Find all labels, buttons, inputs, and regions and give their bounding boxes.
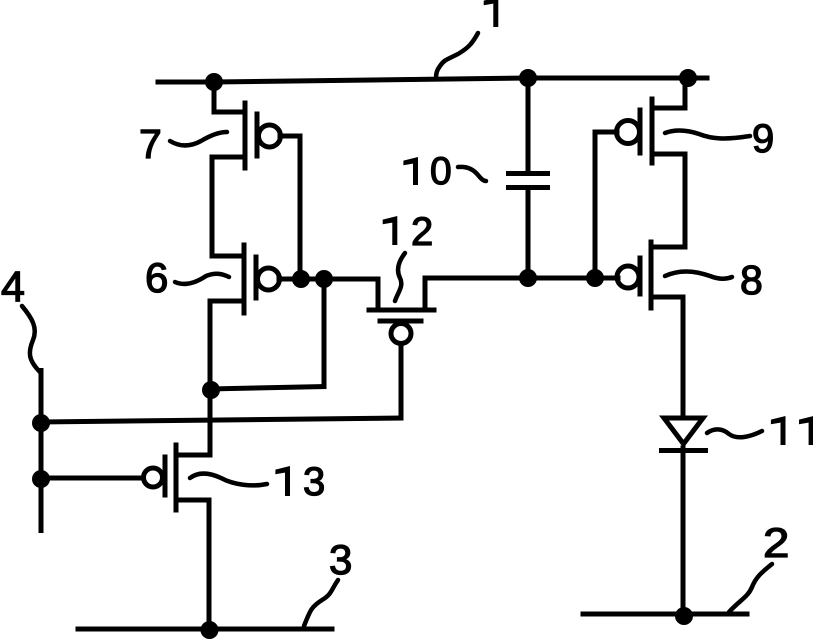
wire leader for label 13 (190, 474, 267, 486)
wire leader for label 6 (175, 274, 229, 284)
node rail1-capacitor junction (519, 69, 537, 87)
wire Q9 gate down (593, 132, 598, 278)
wire node B down (322, 279, 327, 387)
label 11 (771, 416, 786, 445)
wire rail 3 (78, 627, 332, 632)
wire rail 2 (583, 612, 747, 617)
wire feedback horizontal (210, 387, 324, 390)
label 13 (275, 466, 290, 496)
node rail1-T7 junction (205, 73, 223, 91)
label 12 (383, 216, 398, 245)
transistor Q8 (617, 242, 685, 418)
wire node 4 vertical (39, 371, 44, 531)
svg-text:3: 3 (329, 536, 352, 583)
transistor Q13 (41, 445, 210, 629)
wire leader for label 10 (458, 167, 486, 181)
wire leader for label 7 (170, 132, 227, 146)
wire Q7 gate to node (298, 136, 303, 279)
node Q9 gate junction (586, 269, 604, 287)
svg-text:2: 2 (411, 210, 433, 254)
node B feedback junction (315, 270, 333, 288)
wire leader for label 11 (707, 429, 762, 437)
node 4 lower junction (32, 470, 50, 488)
wire leader for label 9 (665, 130, 750, 138)
label 10 (403, 157, 418, 185)
svg-text:7: 7 (139, 121, 162, 167)
node rail1-T9 junction (679, 69, 697, 87)
node rail2 junction (675, 607, 693, 625)
wire leader for label 4 (22, 306, 40, 372)
svg-text:0: 0 (430, 150, 452, 193)
transistor Q7 (212, 82, 300, 256)
transistor Q9 (595, 78, 688, 247)
transistor Q12 (324, 278, 618, 344)
wire power rail 1 (158, 78, 707, 82)
node A gates junction (292, 270, 310, 288)
wire node 4 to Q12 gate (41, 418, 401, 422)
node 4 upper junction (32, 414, 50, 432)
svg-text:3: 3 (303, 460, 325, 504)
label 1 (484, 0, 499, 27)
svg-text:8: 8 (740, 257, 763, 303)
node rail3 junction (201, 621, 219, 639)
svg-text:9: 9 (752, 117, 774, 161)
capacitor C10 (509, 78, 548, 278)
wire leader for label 8 (665, 271, 732, 278)
wire gate node to Q12 (279, 277, 378, 282)
svg-text:4: 4 (1, 263, 25, 311)
wire leader for label 12 (395, 253, 405, 301)
wire Q12 gate down (399, 344, 404, 418)
wire leader for label 2 (729, 564, 772, 612)
transistor Q6 (210, 245, 280, 455)
wire leader for label 1 (436, 33, 478, 78)
wire leader for label 3 (304, 580, 338, 626)
svg-text:6: 6 (145, 254, 168, 301)
node drain junction (202, 381, 220, 399)
svg-text:2: 2 (763, 520, 789, 567)
diode D11 (659, 416, 708, 615)
node capacitor bottom junction (519, 269, 537, 287)
